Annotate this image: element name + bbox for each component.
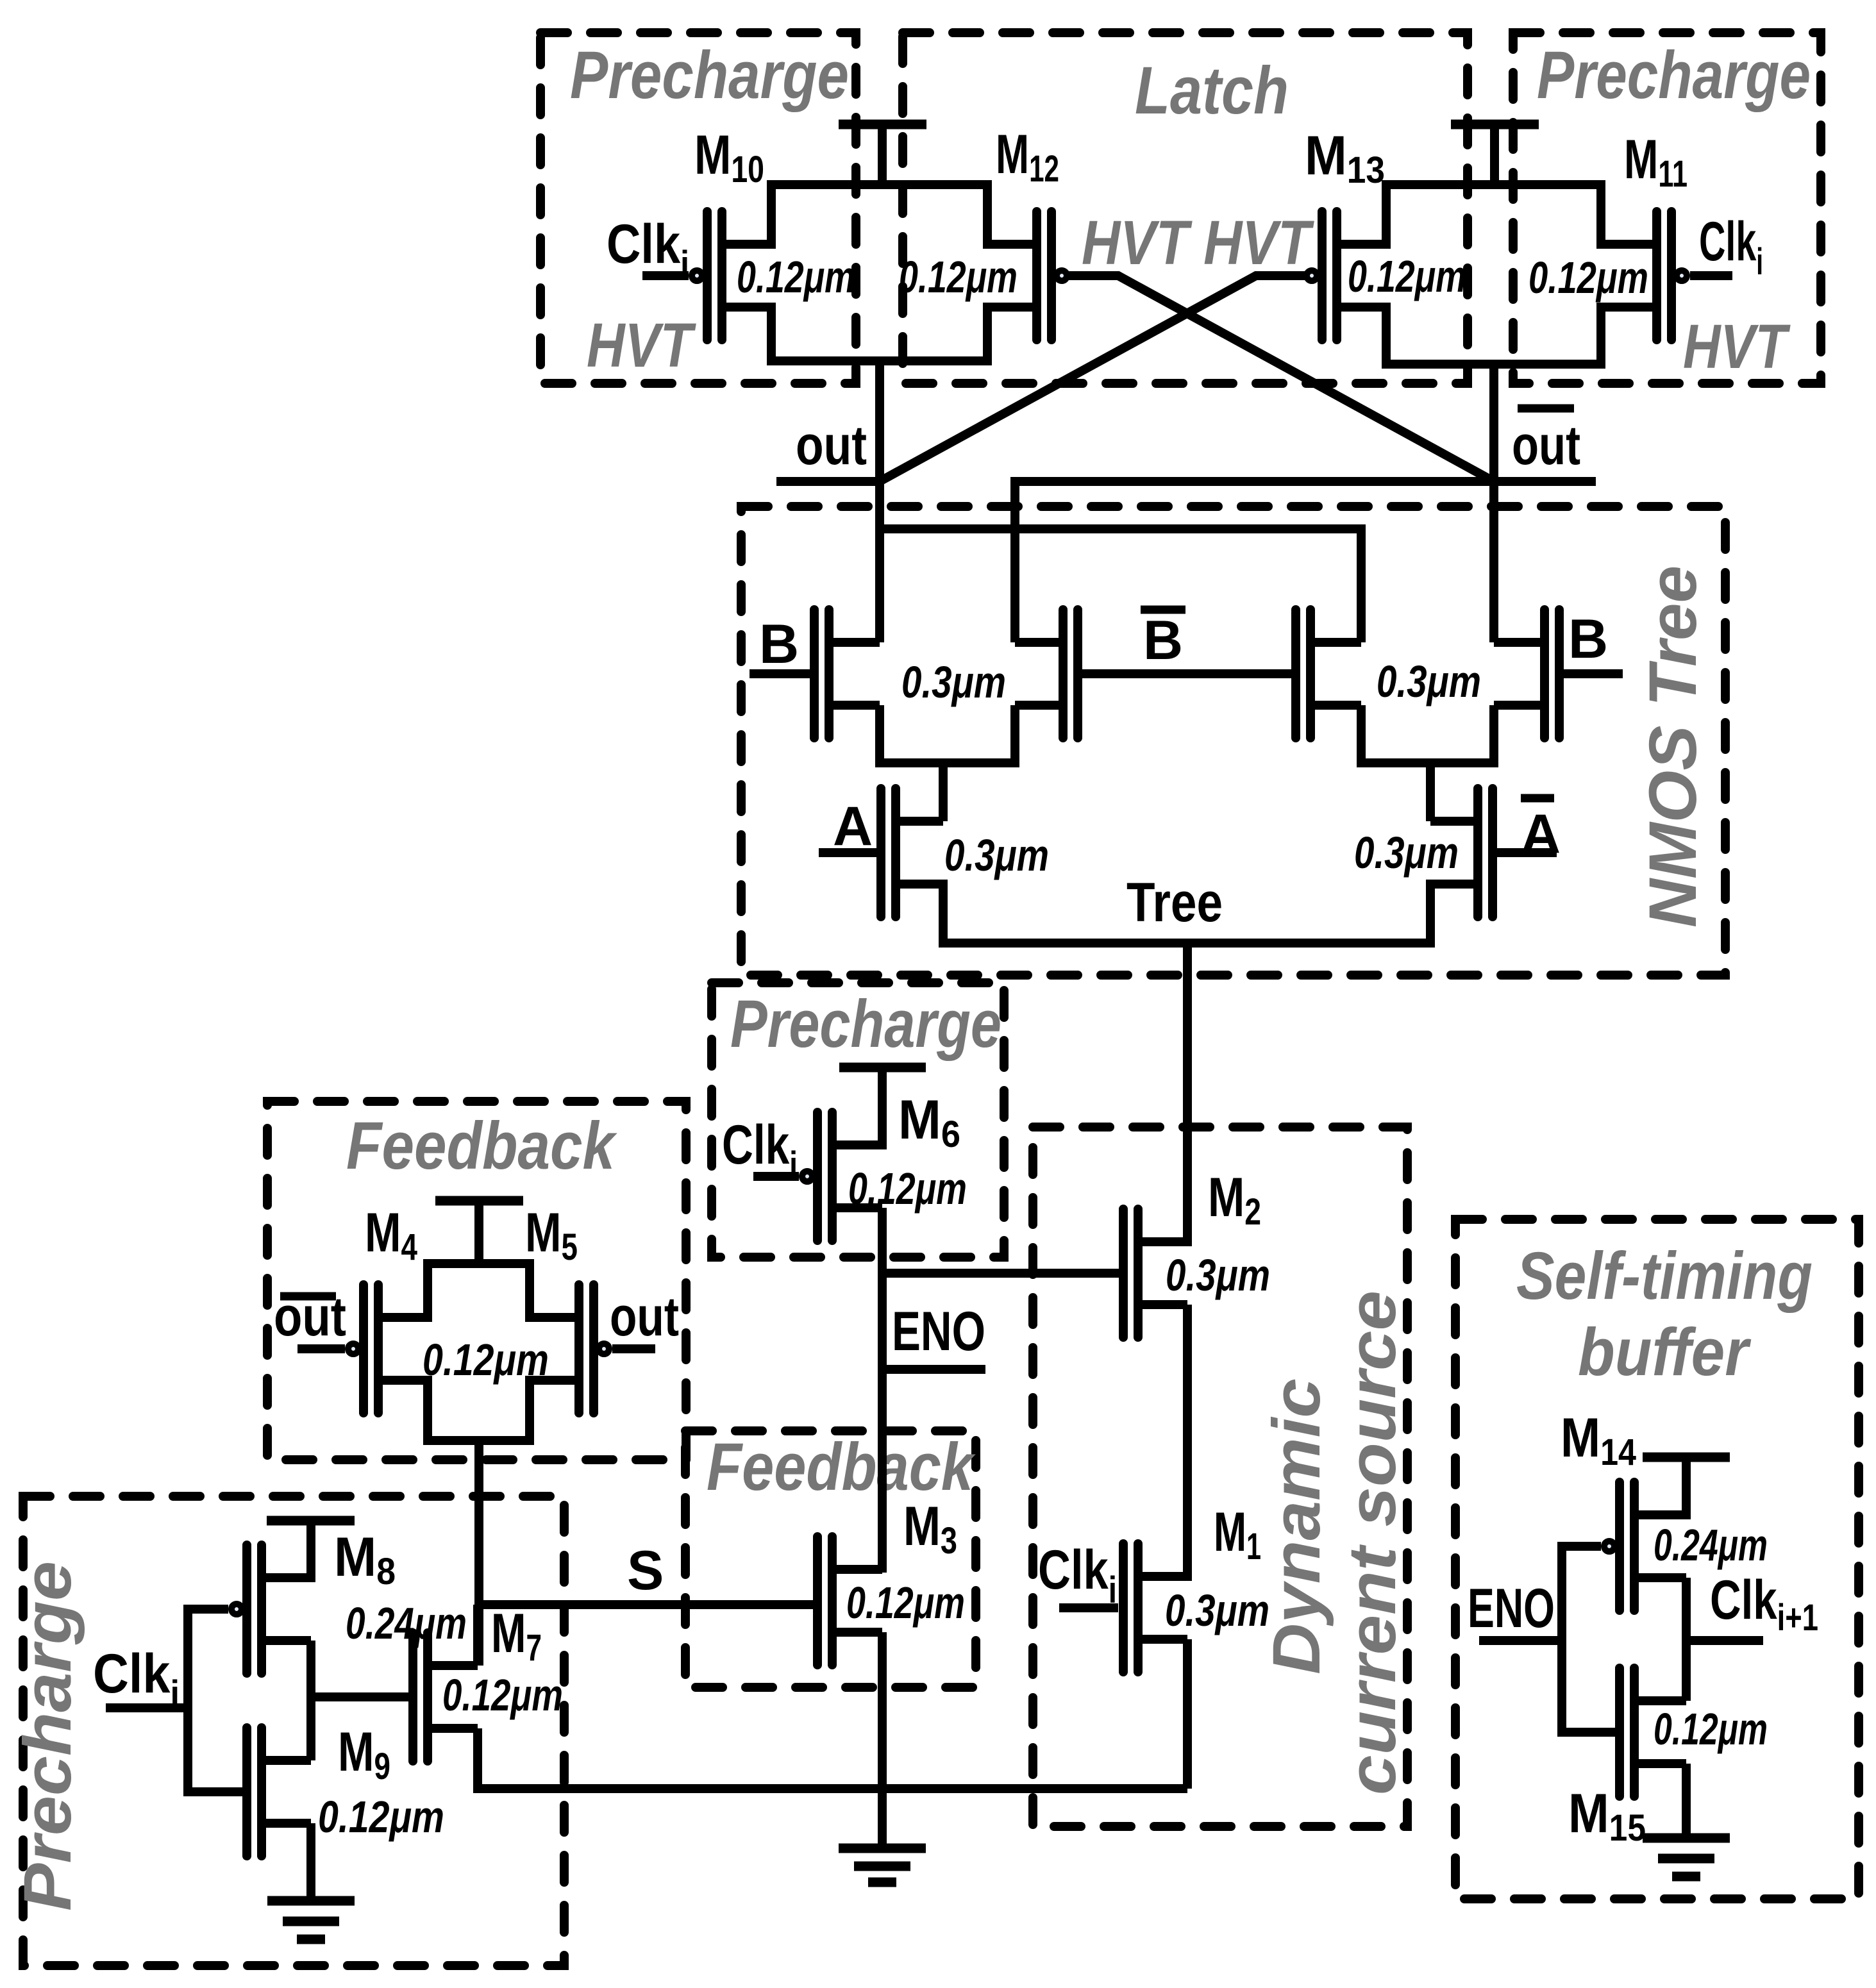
wire M8 drain to M9 drain	[306, 1641, 315, 1760]
svg-text:NMOS Tree: NMOS Tree	[1636, 565, 1711, 928]
wire B gate	[750, 669, 810, 678]
wire B-bar gates joined	[1082, 669, 1291, 678]
label outbar	[1512, 408, 1580, 476]
svg-text:out: out	[1512, 415, 1580, 476]
transistor B-bar left (NMOS, mirrored)	[1015, 610, 1078, 738]
svg-text:Feedback: Feedback	[346, 1108, 617, 1183]
wire ENO input	[1479, 1636, 1562, 1645]
precharge box top-right (M11)	[1513, 33, 1821, 383]
transistor M9 (NMOS)	[247, 1728, 311, 1856]
wire M3 source down to ground	[878, 1632, 887, 1853]
label B-bar	[1141, 610, 1185, 671]
node outbar: vertical drop	[1489, 364, 1498, 642]
svg-text:B: B	[1568, 608, 1608, 670]
wire ENO tap	[882, 1365, 985, 1374]
ground (bottom-left)	[267, 1901, 355, 1939]
wire cross-couple from M12 gate to outbar node	[1068, 276, 1494, 481]
wire cross-couple from M13 gate to out node	[880, 276, 1306, 481]
transistor M6 (PMOS)	[802, 1112, 882, 1240]
wire long bottom rail (M7/M9 source to M1 source)	[478, 1784, 1187, 1793]
svg-text:out: out	[610, 1286, 679, 1348]
transistor M4 (PMOS)	[348, 1285, 428, 1413]
ground (center)	[839, 1848, 926, 1882]
svg-text:Dynamic: Dynamic	[1259, 1378, 1334, 1675]
svg-text:Precharge: Precharge	[570, 38, 849, 113]
svg-text:0.24μm: 0.24μm	[346, 1598, 467, 1648]
svg-text:A: A	[833, 796, 873, 857]
wire top rail M13-M11	[1386, 185, 1601, 249]
precharge box bottom-left (M8/M9)	[23, 1496, 564, 1966]
transistor B right (NMOS, mirrored)	[1494, 610, 1559, 738]
transistor M11 (PMOS, mirrored)	[1601, 212, 1687, 340]
wire A gate	[819, 848, 876, 857]
svg-text:0.3μm: 0.3μm	[944, 830, 1049, 880]
transistor B left (NMOS)	[814, 610, 880, 738]
wire bottom rail M4-M5	[428, 1376, 530, 1441]
wire M9 source to ground	[306, 1823, 315, 1905]
svg-text:Clki: Clki	[93, 1643, 180, 1715]
svg-text:Latch: Latch	[1135, 53, 1289, 128]
VDD symbol (M14)	[1643, 1457, 1730, 1519]
transistor B-bar right (NMOS)	[1296, 610, 1361, 738]
svg-text:0.12μm: 0.12μm	[1654, 1704, 1768, 1754]
wire M6 drain down to ENO node and M3	[878, 1208, 887, 1573]
latch box	[903, 33, 1468, 383]
svg-text:HVT: HVT	[587, 310, 697, 380]
svg-text:Precharge: Precharge	[730, 987, 1001, 1062]
svg-text:0.12μm: 0.12μm	[1348, 251, 1466, 301]
transistor M2 (NMOS)	[1123, 1209, 1187, 1337]
label A-bar	[1521, 798, 1561, 865]
svg-text:HVT HVT: HVT HVT	[1082, 208, 1315, 278]
self-timing buffer box	[1455, 1219, 1859, 1899]
wire inverter output to M7 gate	[311, 1692, 408, 1701]
VDD symbol (M6)	[839, 1067, 926, 1149]
wire M1 source down	[1183, 1639, 1192, 1789]
wire M4 gate (outbar)	[297, 1344, 345, 1353]
transistor M14 (PMOS)	[1604, 1482, 1686, 1610]
wire bottom rail M10-M12	[771, 303, 987, 361]
wire Tree node	[943, 880, 1430, 943]
wire M5 gate (out)	[612, 1344, 655, 1353]
svg-text:A: A	[1521, 803, 1561, 865]
svg-text:Clki: Clki	[722, 1114, 798, 1186]
svg-text:HVT: HVT	[1683, 312, 1791, 381]
svg-text:ENO: ENO	[892, 1301, 985, 1362]
NMOS tree box	[741, 506, 1725, 975]
svg-text:0.12μm: 0.12μm	[846, 1578, 965, 1628]
dynamic current source box	[1033, 1127, 1407, 1826]
wire Clk_i input trunk	[188, 1609, 242, 1792]
svg-text:0.12μm: 0.12μm	[899, 252, 1018, 302]
wire M1 gate (Clk_i)	[1059, 1603, 1118, 1612]
svg-text:buffer: buffer	[1578, 1315, 1752, 1390]
VDD symbol (M4/M5)	[435, 1201, 523, 1268]
svg-text:Self-timing: Self-timing	[1516, 1239, 1813, 1314]
svg-text:ENO: ENO	[1468, 1578, 1555, 1639]
svg-text:Feedback: Feedback	[707, 1430, 976, 1505]
svg-text:current source: current source	[1335, 1291, 1410, 1795]
svg-text:Clki: Clki	[607, 213, 689, 285]
svg-text:0.12μm: 0.12μm	[1528, 253, 1648, 303]
wire outbar horizontal	[1015, 481, 1596, 642]
svg-text:B: B	[759, 614, 799, 675]
svg-text:S: S	[627, 1540, 664, 1601]
wire S to M3 gate	[479, 1600, 813, 1609]
wire B right gate	[1564, 669, 1623, 678]
svg-text:0.3μm: 0.3μm	[901, 657, 1006, 707]
svg-text:out: out	[796, 415, 867, 476]
wire M7 drain up to S node	[473, 1605, 482, 1666]
wire A-bar gate	[1497, 848, 1557, 857]
wire join B/B-bar sources (left)	[880, 705, 1015, 763]
transistor M10 (PMOS)	[692, 212, 771, 340]
feedback box (M4/M5)	[267, 1101, 686, 1460]
VDD symbol (left pair)	[839, 124, 926, 189]
ground (buffer)	[1643, 1838, 1730, 1876]
wire drop to A-bar drain	[1426, 763, 1435, 821]
VDD symbol (M8)	[267, 1521, 355, 1582]
svg-text:0.12μm: 0.12μm	[848, 1164, 967, 1214]
svg-text:0.3μm: 0.3μm	[1377, 656, 1481, 706]
svg-text:0.12μm: 0.12μm	[442, 1670, 563, 1720]
transistor M1 (NMOS)	[1123, 1544, 1187, 1672]
svg-text:0.24μm: 0.24μm	[1654, 1520, 1768, 1570]
wire M10 gate (Clk_i)	[642, 271, 689, 280]
svg-text:0.3μm: 0.3μm	[1354, 828, 1459, 878]
svg-text:0.12μm: 0.12μm	[318, 1792, 444, 1842]
svg-text:0.12μm: 0.12μm	[737, 252, 855, 302]
wire out stub	[776, 477, 880, 486]
svg-text:B: B	[1143, 610, 1183, 671]
wire Tree stem down to M2	[1183, 943, 1192, 1246]
transistor M3 (NMOS)	[817, 1537, 882, 1665]
transistor A-bar (NMOS, mirrored)	[1430, 789, 1493, 917]
transistor M5 (PMOS, mirrored)	[530, 1285, 609, 1413]
wire M6 gate (Clk_i)	[753, 1172, 799, 1181]
transistor M12 (PMOS, mirrored)	[987, 212, 1067, 340]
wire buffer input trunk	[1562, 1546, 1615, 1732]
transistor M15 (NMOS)	[1620, 1668, 1686, 1796]
svg-text:Tree: Tree	[1126, 872, 1223, 933]
feedback box (M3)	[685, 1431, 976, 1687]
svg-text:0.3μm: 0.3μm	[1166, 1250, 1270, 1300]
svg-text:0.3μm: 0.3μm	[1165, 1585, 1269, 1635]
svg-text:Precharge: Precharge	[1537, 38, 1811, 113]
precharge box top-left (M10)	[540, 33, 856, 383]
wire ENO node to M2 gate	[882, 1269, 1119, 1278]
wire top rail M4-M5	[428, 1264, 530, 1322]
svg-text:Clki: Clki	[1699, 211, 1763, 283]
wire M7 source down to bottom rail	[473, 1728, 482, 1793]
transistor A (NMOS)	[881, 789, 943, 917]
transistor M7 (NMOS)	[413, 1633, 478, 1761]
svg-text:Clki: Clki	[1038, 1539, 1117, 1611]
wire M2 source to M1 drain	[1183, 1305, 1192, 1581]
wire Clk_i+1 output	[1686, 1636, 1763, 1645]
wire drop to A drain	[939, 763, 948, 821]
transistor M13 (PMOS)	[1307, 212, 1386, 340]
wire bottom rail M13-M11	[1386, 303, 1601, 364]
wire M11 gate (Clk_i)	[1690, 271, 1732, 280]
label outbar (M4)	[274, 1286, 346, 1348]
wire top rail M10-M12	[771, 185, 987, 249]
wire M15 source to ground	[1682, 1764, 1691, 1842]
wire M14 drain to M15 drain	[1682, 1578, 1691, 1701]
wire out to right B-bar drain (inner horizontal)	[880, 529, 1361, 642]
precharge box (M6)	[712, 983, 1004, 1257]
wire M4/M5 source stem down to S node	[474, 1441, 483, 1666]
node out: vertical drop	[875, 361, 884, 642]
transistor M8 (PMOS)	[231, 1545, 311, 1673]
wire join B-bar/B sources (right)	[1361, 705, 1494, 763]
svg-text:Precharge: Precharge	[10, 1561, 85, 1911]
wire Clk_i input	[106, 1703, 188, 1712]
VDD symbol (right pair)	[1451, 124, 1539, 189]
